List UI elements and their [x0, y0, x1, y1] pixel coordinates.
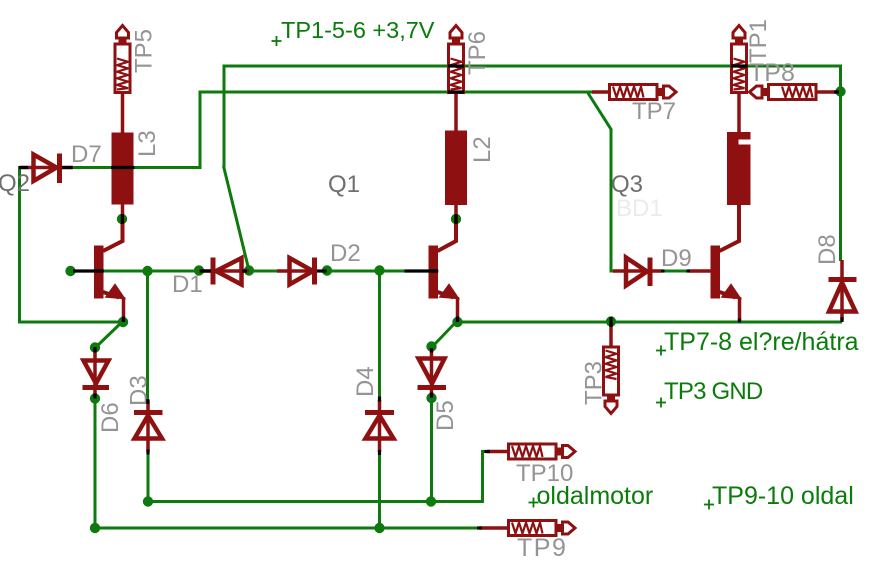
wire left vertical from top wire [223, 65, 226, 168]
junction bottom rail left corner [90, 523, 100, 533]
wire corner vertical x200 [199, 91, 202, 168]
svg-text:TP1-5-6 +3,7V: TP1-5-6 +3,7V [281, 17, 435, 43]
wire D6 to bottom rail [94, 398, 97, 530]
overlap TP10 pin [485, 450, 491, 453]
wire oldalmotor rail y501.5 [147, 500, 483, 503]
overlap TP6 wire2 [448, 90, 464, 93]
svg-text:BD1: BD1 [616, 195, 663, 222]
diode D1 [199, 258, 249, 285]
wire net +3,7V top horizontal [224, 65, 842, 68]
wire base node down to D3 [146, 271, 149, 400]
svg-text:TP1: TP1 [745, 19, 772, 63]
inductor L2 [445, 131, 467, 221]
svg-text:L2: L2 [469, 136, 496, 163]
overlap D8 bottom pin [840, 317, 843, 322]
overlap Q3 emitter pin [738, 319, 741, 323]
testpoint TP7 [592, 85, 676, 100]
testpoint TP5 [115, 26, 130, 134]
junction L2 bottom [451, 214, 461, 224]
junction Q2 base node [65, 266, 75, 276]
wire D9 cathode to Q3 base [663, 270, 688, 273]
svg-text:TP3 GND: TP3 GND [664, 378, 763, 405]
junction D2 cathode node [322, 265, 332, 275]
svg-text:D5: D5 [432, 400, 459, 431]
transistor Q3 [711, 205, 741, 322]
junction D4 bottom rail [374, 523, 384, 533]
transistor Q1 [429, 219, 459, 322]
inductor L1 [727, 132, 752, 242]
junction D5 rail [426, 496, 436, 506]
junction TP3 node [606, 316, 616, 326]
overlap TP1 wire1 [731, 64, 748, 67]
svg-text:D9: D9 [661, 245, 692, 272]
label TP3 [581, 361, 608, 405]
diode D6 [83, 349, 110, 397]
svg-text:D8: D8 [814, 234, 841, 265]
overlap TP9 pin [477, 526, 482, 529]
wire node to D1 [148, 270, 201, 273]
overlap D3 bottom pin [146, 450, 149, 455]
svg-text:TP8: TP8 [749, 59, 795, 87]
net label TP9-10 oldal [704, 482, 854, 510]
diode D8 [829, 260, 857, 320]
overlap Q3 base pin [687, 269, 691, 272]
overlap D5 bottom pin [430, 393, 433, 398]
wire emitter rail y322 [457, 321, 842, 324]
label D1 [172, 271, 203, 298]
label D4 [352, 366, 379, 397]
svg-text:Q2: Q2 [0, 170, 30, 197]
overlap L3 wire [111, 166, 135, 169]
wire D5 to oldalmotor rail [430, 398, 433, 504]
diode D5 [418, 349, 447, 397]
label Q1 [328, 171, 360, 198]
wire Q2 base through [71, 270, 148, 273]
svg-text:TP7-8 el?re/hátra: TP7-8 el?re/hátra [664, 328, 859, 356]
wire vertical x611 to D9 [610, 129, 613, 273]
wire diagonal Q2 emitter to D6 [96, 322, 123, 348]
svg-text:TP6: TP6 [464, 31, 491, 75]
junction TP8 right [835, 86, 845, 96]
testpoint TP6 [449, 26, 464, 132]
wire D3 to oldalmotor rail [147, 453, 150, 503]
svg-text:L3: L3 [134, 130, 161, 157]
overlap D2 right pin [317, 269, 327, 272]
svg-text:D7: D7 [71, 141, 102, 168]
label D2 [330, 240, 361, 267]
overlap D4 top pin [378, 397, 381, 402]
label TP8 [749, 59, 795, 87]
wire Q1 base node down to D4 [378, 271, 381, 400]
junction Q1 base node [374, 265, 384, 275]
label D9 [661, 245, 692, 272]
overlap Q1 emitter pin [456, 317, 459, 323]
svg-text:D4: D4 [352, 366, 379, 397]
inductor L3 [112, 133, 134, 221]
wire D7 to corner horizontal [73, 166, 202, 169]
wire rail up to TP10 [481, 452, 484, 504]
junction node A middle [142, 266, 152, 276]
overlap D1 left pin [200, 269, 211, 272]
wire diagonal TP7 branch [587, 92, 612, 131]
label TP6 [464, 31, 491, 75]
svg-text:TP5: TP5 [131, 29, 158, 73]
junction D1-D2 node [244, 265, 254, 275]
diode D9 [613, 258, 711, 287]
label D6 [97, 402, 124, 433]
net label TP3 GND [656, 378, 763, 408]
overlap TP3 lead [609, 317, 612, 327]
junction D5 top [426, 341, 436, 351]
label D7 [71, 141, 102, 168]
junction D5 bottom [426, 393, 436, 403]
label L3 [134, 130, 161, 157]
overlap TP6 wire1 [448, 64, 464, 67]
net label TP7-8 el?re/hatra [656, 328, 859, 356]
svg-text:D2: D2 [330, 240, 361, 267]
wire diagonal to D1-D2 node [224, 166, 250, 271]
wire TP9 stub [470, 527, 481, 530]
svg-text:Q3: Q3 [611, 171, 643, 198]
transistor Q2 [94, 219, 125, 322]
junction D6 top [90, 342, 100, 352]
svg-text:oldalmotor: oldalmotor [537, 482, 654, 510]
label TP5 [131, 29, 158, 73]
overlap D7 right pin [62, 166, 73, 169]
label TP7 [632, 98, 676, 125]
net label TP1-5-6 +3,7V [272, 17, 435, 46]
label D5 [432, 400, 459, 431]
overlap D6 top pin [93, 347, 96, 353]
svg-text:D6: D6 [97, 402, 124, 433]
label L2 [469, 136, 496, 163]
wire left edge vertical [18, 166, 21, 324]
wire stub to TP10 [481, 450, 489, 453]
junction L3 bottom [117, 214, 127, 224]
diode D4 [365, 400, 394, 452]
wire diagonal Q1 emitter to D5 [432, 322, 457, 348]
wire D4 down to bottom rail [378, 453, 381, 530]
svg-text:TP9: TP9 [517, 534, 567, 562]
junction Q2 emitter node [118, 317, 128, 327]
overlap Q2 emitter pin [122, 317, 125, 323]
svg-text:D1: D1 [172, 271, 203, 298]
svg-text:Q1: Q1 [328, 171, 360, 198]
label Q3 [611, 171, 643, 198]
testpoint TP9 [479, 521, 575, 536]
junction D6 bottom [90, 393, 100, 403]
junction D3 rail corner [143, 496, 153, 506]
svg-text:TP7: TP7 [632, 98, 676, 125]
label Q3 value ghost [616, 195, 663, 222]
junction node at x199 [194, 265, 204, 275]
overlap D1 right pin [242, 269, 247, 272]
wire second horizontal y92 [200, 91, 592, 94]
wire bottom rail y528 [94, 527, 482, 530]
overlap Q1 base pin [405, 269, 439, 272]
wire net +3,7V right corner down [839, 65, 842, 94]
overlap D4 bottom pin [378, 450, 381, 455]
overlap TP8 pin [834, 90, 839, 93]
overlap D6 bottom pin [93, 394, 96, 399]
diode D2 [277, 258, 317, 285]
overlap L2 bottom lead [454, 214, 457, 224]
label D3 [126, 375, 153, 406]
label D8 [814, 234, 841, 265]
overlap D3 top pin [146, 399, 149, 404]
svg-text:TP9-10 oldal: TP9-10 oldal [712, 482, 854, 510]
svg-text:TP3: TP3 [581, 361, 608, 405]
testpoint TP1 [732, 26, 747, 134]
overlap D5 top pin [430, 348, 433, 353]
label TP10 [516, 460, 573, 487]
diode D3 [134, 400, 163, 452]
junction Q1 emitter node [452, 317, 462, 327]
testpoint TP3 [604, 323, 619, 414]
testpoint TP8 [750, 85, 839, 100]
diode D7 [20, 154, 73, 184]
label TP1 [745, 19, 772, 63]
wire D2 to Q1 base node [327, 270, 429, 273]
net label oldalmotor [529, 482, 654, 510]
overlap D9 right pin [661, 269, 665, 272]
overlap D7 left pin [19, 166, 28, 169]
overlap L3 bottom lead [121, 214, 124, 224]
label Q2 [0, 170, 30, 197]
wire bottom left horizontal y322 [18, 321, 123, 324]
wire D9 anode stub [611, 270, 616, 273]
overlap Q2 base pin [73, 269, 104, 272]
testpoint TP10 [487, 444, 575, 459]
label TP9 [517, 534, 567, 562]
wire D1 to D2 node [249, 270, 278, 273]
wire right vertical to D8 [839, 92, 842, 261]
